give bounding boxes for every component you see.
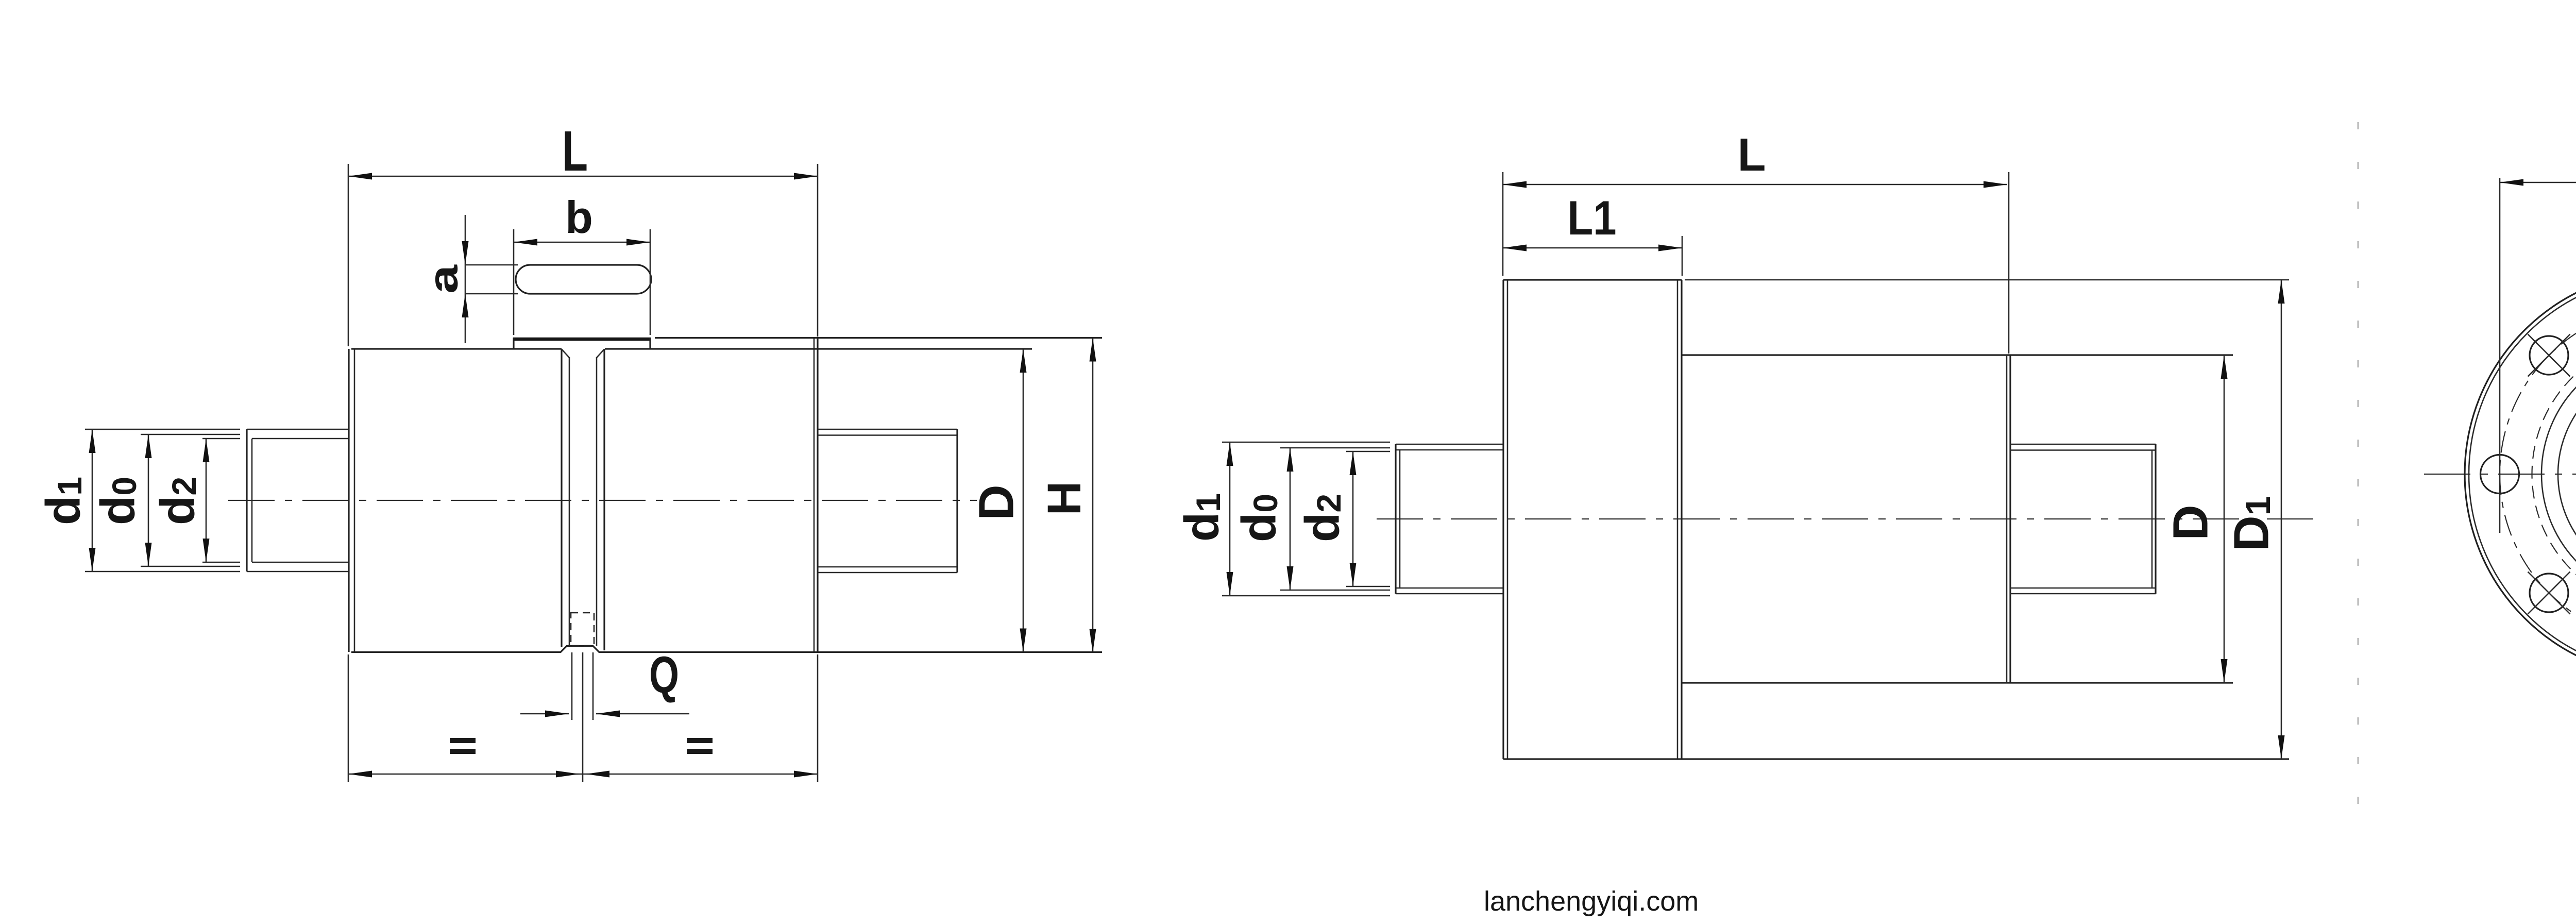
svg-text:b: b <box>565 192 593 243</box>
svg-text:L: L <box>562 120 588 183</box>
svg-text:H: H <box>1038 481 1091 515</box>
svg-text:L1: L1 <box>1568 191 1617 245</box>
svg-text:a: a <box>420 264 466 294</box>
svg-text:Q: Q <box>649 646 679 704</box>
svg-text:L: L <box>1738 129 1766 181</box>
svg-text:D: D <box>969 484 1024 520</box>
svg-text:lanchengyiqi.com: lanchengyiqi.com <box>1484 886 1699 917</box>
svg-text:D: D <box>2163 505 2218 540</box>
